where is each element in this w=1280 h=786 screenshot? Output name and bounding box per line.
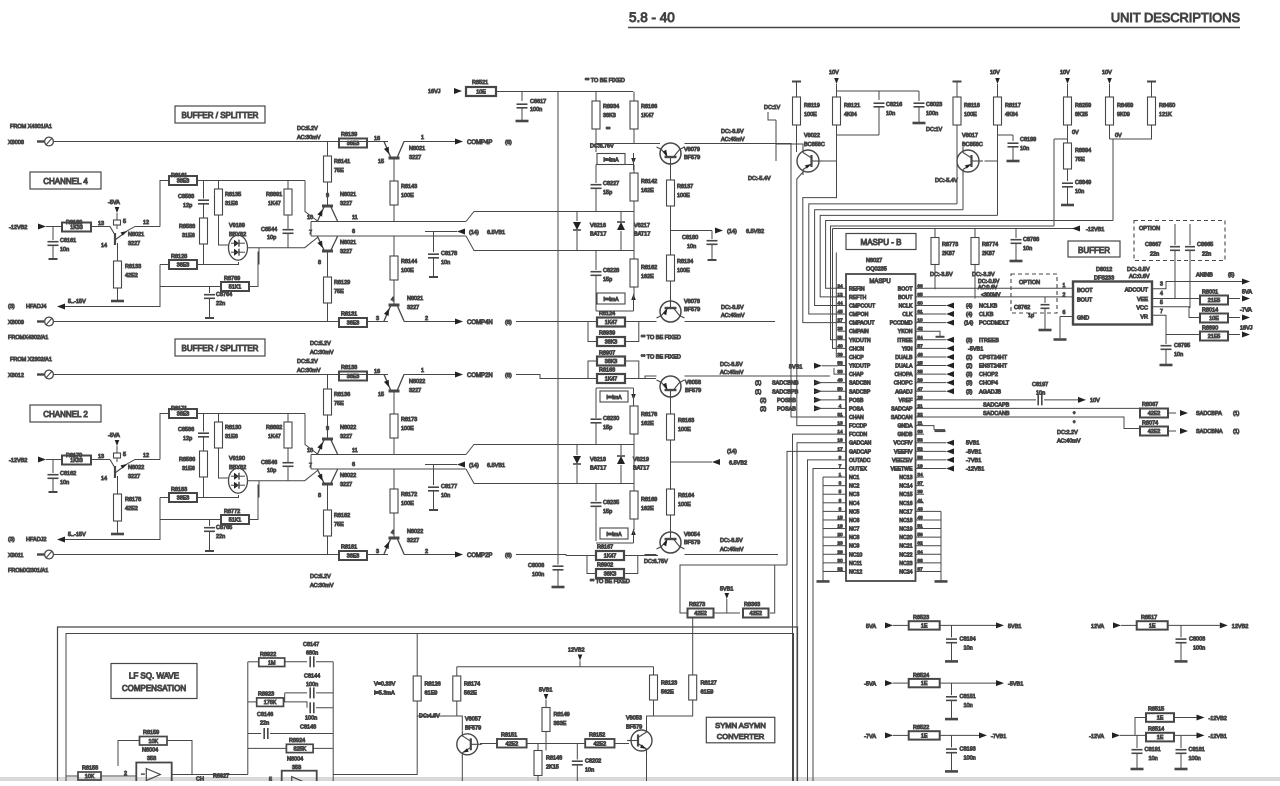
svg-text:R8158: R8158 xyxy=(82,766,98,772)
svg-text:10n: 10n xyxy=(60,247,69,253)
svg-text:GADCAP: GADCAP xyxy=(849,449,871,455)
svg-text:GADCAN: GADCAN xyxy=(849,441,871,447)
wire -12VB2 row xyxy=(46,459,62,461)
svg-text:N8022: N8022 xyxy=(340,425,356,431)
svg-text:8: 8 xyxy=(318,493,321,499)
svg-text:(14): (14) xyxy=(964,321,973,327)
net -12VB1 out xyxy=(1197,732,1205,738)
svg-text:DC:-8.5V: DC:-8.5V xyxy=(720,538,743,544)
svg-text:NC12: NC12 xyxy=(849,569,862,575)
svg-text:1: 1 xyxy=(421,135,424,141)
svg-text:85: 85 xyxy=(917,292,923,298)
wire core top rail xyxy=(160,181,169,227)
svg-text:V8218: V8218 xyxy=(590,457,606,463)
wire fan row6 from 0V xyxy=(831,226,1055,340)
svg-text:12: 12 xyxy=(143,220,149,226)
svg-text:10n: 10n xyxy=(1020,146,1029,152)
svg-text:BOOT: BOOT xyxy=(1077,288,1093,294)
svg-text:75E: 75E xyxy=(334,168,344,174)
wire R8907 R8168 parallel loop xyxy=(588,361,597,379)
wire opamp1 feedback xyxy=(118,741,140,767)
svg-text:R8131: R8131 xyxy=(341,312,357,318)
wire R8137 to node 6.5VB2 xyxy=(670,206,672,255)
svg-text:3227: 3227 xyxy=(407,305,419,311)
svg-text:NC7: NC7 xyxy=(849,527,859,533)
svg-text:SADCBNB: SADCBNB xyxy=(772,381,799,387)
svg-text:15: 15 xyxy=(837,515,843,521)
resistor R8922 xyxy=(248,661,259,663)
svg-text:C8180: C8180 xyxy=(682,235,698,241)
wire input bottom row xyxy=(53,321,339,323)
resistor R8142 xyxy=(630,173,638,201)
wire upper diode box right edge xyxy=(633,212,635,251)
svg-text:N8021: N8021 xyxy=(407,296,423,302)
svg-text:YKN: YKN xyxy=(902,346,913,352)
svg-text:1K33: 1K33 xyxy=(70,225,83,231)
wire 0V drop 4 xyxy=(1110,139,1114,221)
net 5VB1 out xyxy=(996,622,1004,628)
capacitor C8191 xyxy=(1136,735,1138,748)
svg-text:10n: 10n xyxy=(441,260,450,266)
svg-text:BF579: BF579 xyxy=(684,540,700,546)
svg-text:I=4mA: I=4mA xyxy=(603,297,619,303)
svg-text:13: 13 xyxy=(98,221,104,227)
svg-text:825K: 825K xyxy=(293,746,306,752)
svg-text:15p: 15p xyxy=(603,509,612,515)
wire input top row xyxy=(53,374,388,376)
transistor V8054 xyxy=(660,532,681,553)
wire V8079 emitter down xyxy=(670,167,672,180)
svg-text:NC14: NC14 xyxy=(899,484,912,490)
net ANINB xyxy=(1152,282,1242,289)
capacitor C8151 xyxy=(951,683,953,695)
svg-text:R8939: R8939 xyxy=(599,331,615,337)
svg-text:C8665: C8665 xyxy=(1197,242,1213,248)
svg-text:V8017: V8017 xyxy=(962,133,978,139)
svg-text:680n: 680n xyxy=(306,651,318,657)
resistor R8174 xyxy=(456,667,458,676)
wire fan row2 from V8017 emitter xyxy=(962,172,964,210)
svg-text:C8235: C8235 xyxy=(603,500,619,506)
svg-text:1K47: 1K47 xyxy=(605,377,618,383)
signal output COMP4P xyxy=(455,139,463,145)
svg-text:0V: 0V xyxy=(1072,130,1079,136)
svg-text:10n: 10n xyxy=(441,493,450,499)
svg-text:POSB: POSB xyxy=(849,398,864,404)
svg-text:BUFFER: BUFFER xyxy=(1078,246,1110,255)
net 5VA out xyxy=(1242,296,1250,302)
net 12VB2 out xyxy=(1220,622,1228,628)
svg-text:16VJ: 16VJ xyxy=(428,89,441,95)
svg-text:R8459: R8459 xyxy=(1117,103,1133,109)
svg-text:100n: 100n xyxy=(305,716,317,722)
svg-text:NC11: NC11 xyxy=(849,561,862,567)
svg-text:3227: 3227 xyxy=(128,474,140,480)
svg-text:22n: 22n xyxy=(216,534,225,540)
diode V8218 xyxy=(576,445,578,456)
svg-text:16: 16 xyxy=(374,136,380,142)
svg-text:CHOP4: CHOP4 xyxy=(979,381,998,387)
svg-text:5: 5 xyxy=(1160,300,1163,306)
svg-text:38E3: 38E3 xyxy=(347,374,360,380)
svg-text:N8027: N8027 xyxy=(866,258,882,264)
wire CHAP feed xyxy=(834,368,838,374)
svg-text:<300MV: <300MV xyxy=(981,293,1001,299)
svg-text:10n: 10n xyxy=(1075,189,1084,195)
svg-text:100E: 100E xyxy=(401,268,414,274)
resistor R8143 xyxy=(390,181,398,205)
wire base third down xyxy=(327,253,329,278)
svg-text:C8151: C8151 xyxy=(960,694,976,700)
svg-text:HFADJ2: HFADJ2 xyxy=(26,537,46,543)
svg-text:N8021: N8021 xyxy=(409,146,425,152)
svg-text:VREF: VREF xyxy=(899,398,913,404)
svg-text:1E: 1E xyxy=(921,733,928,739)
wire fan row0 from R8459 0V xyxy=(826,221,1113,289)
svg-text:CONVERTER: CONVERTER xyxy=(717,732,765,741)
capacitor C8177 xyxy=(433,465,435,486)
svg-text:100n: 100n xyxy=(926,111,938,117)
svg-text:GNDB: GNDB xyxy=(898,432,914,438)
wire R8134 to V8078 xyxy=(670,281,672,301)
svg-text:87: 87 xyxy=(917,566,923,572)
wire input top row xyxy=(53,141,388,143)
wire D8012 GND xyxy=(1060,316,1073,318)
svg-text:MASPU - B: MASPU - B xyxy=(861,238,902,247)
option dashed box with C8667 C8665 xyxy=(1134,221,1225,261)
svg-text:NCLK: NCLK xyxy=(899,303,913,309)
wire top rail to pin10 leg xyxy=(305,414,318,455)
capacitor C8227 xyxy=(595,165,597,184)
svg-text:CLKB: CLKB xyxy=(979,312,994,318)
svg-text:V=0.33V: V=0.33V xyxy=(374,682,396,688)
svg-text:38K3: 38K3 xyxy=(605,340,618,346)
svg-text:383E: 383E xyxy=(554,721,567,727)
svg-text:38E3: 38E3 xyxy=(347,141,360,147)
svg-text:38E3: 38E3 xyxy=(177,263,190,269)
svg-text:61: 61 xyxy=(917,309,923,315)
svg-text:162E: 162E xyxy=(641,188,654,194)
svg-text:52: 52 xyxy=(917,446,923,452)
wire output top xyxy=(404,141,455,143)
wire node 6.75 to V8079 xyxy=(596,143,660,145)
capacitor C8228 xyxy=(595,251,597,271)
svg-text:C8230: C8230 xyxy=(603,416,619,422)
svg-text:R8934: R8934 xyxy=(603,104,619,110)
net ITREEB xyxy=(946,337,954,343)
wire hfadj to 5k1 xyxy=(160,520,210,540)
svg-text:75E: 75E xyxy=(334,401,344,407)
resistor R8892 xyxy=(287,414,289,423)
svg-text:R8774: R8774 xyxy=(982,242,998,248)
svg-text:31E6: 31E6 xyxy=(182,466,195,472)
svg-text:(3): (3) xyxy=(8,537,15,543)
svg-text:C8227: C8227 xyxy=(603,181,619,187)
capacitor C8161 xyxy=(52,227,54,241)
svg-text:SADCBNA: SADCBNA xyxy=(1196,429,1223,435)
svg-text:12: 12 xyxy=(143,453,149,459)
svg-text:BOUT: BOUT xyxy=(898,295,913,301)
svg-text:1: 1 xyxy=(839,472,842,478)
svg-text:REFIN: REFIN xyxy=(849,286,865,292)
wire BOUT row xyxy=(924,296,1073,298)
svg-text:NC3: NC3 xyxy=(849,492,859,498)
svg-text:21E5: 21E5 xyxy=(1208,334,1221,340)
svg-text:DC:5.2V: DC:5.2V xyxy=(297,126,318,132)
wire lower diode bus bottom xyxy=(558,483,634,485)
svg-text:10: 10 xyxy=(917,318,923,324)
svg-text:14: 14 xyxy=(837,429,843,435)
svg-text:NC24: NC24 xyxy=(899,569,912,575)
svg-text:AC:0.6V: AC:0.6V xyxy=(978,285,998,291)
svg-text:R8259: R8259 xyxy=(1075,103,1091,109)
svg-text:R8273: R8273 xyxy=(689,602,705,608)
svg-text:CH: CH xyxy=(196,777,204,782)
svg-text:YKOUTN: YKOUTN xyxy=(849,338,871,344)
svg-text:POSAB: POSAB xyxy=(777,406,796,412)
capacitor C8235 xyxy=(595,484,597,502)
svg-text:NCLKB: NCLKB xyxy=(979,303,998,309)
svg-text:C8197: C8197 xyxy=(1032,382,1048,388)
svg-text:R8172: R8172 xyxy=(401,492,417,498)
capacitor C8181 xyxy=(1180,735,1182,748)
resistor R8123 xyxy=(653,667,655,675)
svg-text:15: 15 xyxy=(378,159,384,165)
svg-text:NC9: NC9 xyxy=(849,544,859,550)
svg-text:19: 19 xyxy=(917,463,923,469)
wire R8164 to V8054 xyxy=(670,515,672,532)
svg-text:VEETWE: VEETWE xyxy=(891,466,913,472)
net 6.5VB1 bus label xyxy=(425,464,457,466)
svg-text:51K1: 51K1 xyxy=(229,285,242,291)
svg-text:CHANNEL 2: CHANNEL 2 xyxy=(43,410,88,419)
wire core top rail xyxy=(160,414,169,460)
svg-text:C8617: C8617 xyxy=(530,99,546,105)
svg-text:25: 25 xyxy=(917,361,923,367)
svg-text:R8142: R8142 xyxy=(641,179,657,185)
svg-text:C8193: C8193 xyxy=(960,746,976,752)
svg-text:53: 53 xyxy=(917,438,923,444)
svg-text:R8149: R8149 xyxy=(554,712,570,718)
svg-text:5VB1: 5VB1 xyxy=(1008,624,1021,630)
svg-text:562E: 562E xyxy=(464,691,477,697)
svg-text:** TO BE FIXED: ** TO BE FIXED xyxy=(585,78,625,84)
svg-text:ITREEB: ITREEB xyxy=(979,338,999,344)
svg-text:R8164: R8164 xyxy=(678,493,694,499)
svg-text:42: 42 xyxy=(917,326,923,332)
svg-text:3227: 3227 xyxy=(409,155,421,161)
wire fan row7 from -12VB1 rail xyxy=(833,229,839,349)
svg-text:100E: 100E xyxy=(804,112,817,118)
svg-text:39: 39 xyxy=(837,352,843,358)
svg-text:AC:45mV: AC:45mV xyxy=(721,137,745,143)
svg-text:11: 11 xyxy=(352,215,358,221)
svg-text:162E: 162E xyxy=(641,274,654,280)
capacitor C8764 xyxy=(209,287,211,294)
diode V8219 xyxy=(620,445,622,456)
svg-text:C8006: C8006 xyxy=(528,563,544,569)
svg-text:R8163: R8163 xyxy=(678,418,694,424)
svg-text:CHOPA: CHOPA xyxy=(894,372,913,378)
svg-text:-5VB1: -5VB1 xyxy=(966,449,981,455)
svg-text:1E: 1E xyxy=(1157,735,1164,741)
svg-text:AC:40mV: AC:40mV xyxy=(1057,439,1081,445)
svg-text:26: 26 xyxy=(837,549,843,555)
wire to out -5VB1 xyxy=(940,682,996,684)
ic MASPU right pins xyxy=(916,287,925,289)
wire base third down xyxy=(327,486,329,511)
capacitor C8202 xyxy=(576,744,578,760)
svg-text:12VB2: 12VB2 xyxy=(1232,624,1249,630)
svg-text:BC858C: BC858C xyxy=(804,142,825,148)
svg-text:7: 7 xyxy=(839,463,842,469)
svg-text:NC21: NC21 xyxy=(899,544,912,550)
svg-text:R8169: R8169 xyxy=(641,497,657,503)
svg-text:NC1: NC1 xyxy=(849,475,859,481)
svg-text:45: 45 xyxy=(837,309,843,315)
resistor R8176 xyxy=(630,406,638,434)
svg-text:33: 33 xyxy=(837,369,843,375)
svg-text:562E: 562E xyxy=(661,690,674,696)
svg-text:V9189: V9189 xyxy=(229,223,245,229)
svg-text:10n: 10n xyxy=(1174,352,1183,358)
svg-text:C8795: C8795 xyxy=(1174,343,1190,349)
svg-text:1: 1 xyxy=(1063,283,1066,289)
svg-text:SADCBP: SADCBP xyxy=(849,389,871,395)
svg-text:C8023: C8023 xyxy=(926,102,942,108)
wire to out 5VB1 xyxy=(940,624,996,626)
resistor R8136 xyxy=(327,375,329,390)
svg-text:FCCDP: FCCDP xyxy=(849,424,867,430)
svg-text:1p: 1p xyxy=(1028,313,1034,319)
svg-text:42E2: 42E2 xyxy=(1148,429,1161,435)
wire V8079 right leg to fan xyxy=(685,144,839,418)
svg-text:5VB1: 5VB1 xyxy=(966,441,979,447)
svg-text:12p: 12p xyxy=(183,203,192,209)
svg-text:SADCAN: SADCAN xyxy=(891,415,913,421)
svg-text:C8762: C8762 xyxy=(1014,305,1030,311)
svg-text:4: 4 xyxy=(391,530,394,536)
svg-text:CHAN: CHAN xyxy=(849,415,864,421)
resistor R8162 xyxy=(630,259,638,287)
svg-text:(1): (1) xyxy=(1233,411,1240,417)
svg-text:10n: 10n xyxy=(886,111,895,117)
wire V8022 base node xyxy=(837,134,880,136)
svg-text:R8121: R8121 xyxy=(844,103,860,109)
wire NC1-NC12 common xyxy=(823,477,838,571)
svg-text:2K87: 2K87 xyxy=(942,251,955,257)
svg-text:R8143: R8143 xyxy=(401,184,417,190)
svg-text:NC22: NC22 xyxy=(899,552,912,558)
net SADCAPB xyxy=(924,407,1140,409)
svg-text:C8216: C8216 xyxy=(886,102,902,108)
svg-text:-12VB1: -12VB1 xyxy=(1209,734,1227,740)
svg-text:15p: 15p xyxy=(603,425,612,431)
wire V8079 left leg xyxy=(648,143,657,145)
svg-text:AC:45mV: AC:45mV xyxy=(720,370,744,376)
svg-text:(6): (6) xyxy=(505,140,512,146)
svg-text:4: 4 xyxy=(391,297,394,303)
svg-text:CPST24HT: CPST24HT xyxy=(979,355,1008,361)
wire output bottom xyxy=(404,554,455,556)
svg-text:9: 9 xyxy=(326,426,329,432)
capacitor C8162 xyxy=(52,460,54,474)
svg-text:N8022: N8022 xyxy=(128,465,144,471)
svg-text:8: 8 xyxy=(839,506,842,512)
svg-text:V8057: V8057 xyxy=(465,717,481,723)
block title BUFFER xyxy=(1068,241,1120,257)
svg-text:-12VB1: -12VB1 xyxy=(966,466,984,472)
svg-text:DC:5.2V: DC:5.2V xyxy=(310,341,331,347)
svg-text:R8159: R8159 xyxy=(143,730,159,736)
resistor R8259 xyxy=(1064,97,1072,125)
wire 42E2 row loop xyxy=(680,565,787,613)
svg-text:DC:-8.5V: DC:-8.5V xyxy=(720,362,743,368)
svg-text:DC:4.8V: DC:4.8V xyxy=(419,714,440,720)
svg-text:R8182: R8182 xyxy=(334,513,350,519)
svg-text:5: 5 xyxy=(839,489,842,495)
ground C8617 xyxy=(516,120,529,123)
svg-text:C8667: C8667 xyxy=(1145,242,1161,248)
svg-text:(14): (14) xyxy=(727,229,737,235)
svg-text:N8004: N8004 xyxy=(142,748,158,754)
svg-text:51K1: 51K1 xyxy=(229,518,242,524)
svg-text:13: 13 xyxy=(98,454,104,460)
capacitor C8006 xyxy=(557,556,559,565)
net CPST24HT xyxy=(946,354,954,360)
svg-text:10V: 10V xyxy=(829,70,839,76)
ic MASPU body xyxy=(846,274,916,581)
net CHOP4 xyxy=(946,380,954,386)
svg-text:N8004: N8004 xyxy=(287,757,303,763)
svg-text:5VA: 5VA xyxy=(866,624,876,630)
transistor V8078 xyxy=(660,301,681,322)
svg-text:22n: 22n xyxy=(216,301,225,307)
resistor R8774 xyxy=(971,238,979,265)
svg-text:CHOP2: CHOP2 xyxy=(979,372,998,378)
svg-text:10n: 10n xyxy=(964,645,973,651)
wire V8058 emitter down xyxy=(670,400,672,414)
svg-text:66: 66 xyxy=(917,558,923,564)
svg-text:6.5VB2: 6.5VB2 xyxy=(729,461,747,467)
net NCLKB xyxy=(946,302,954,308)
wire fan row1 from V8017 base xyxy=(997,161,999,215)
svg-text:AC:30mV: AC:30mV xyxy=(310,350,334,356)
svg-text:(3): (3) xyxy=(966,372,973,378)
wire GNDA ground xyxy=(924,426,934,430)
svg-text:V8054: V8054 xyxy=(684,532,700,538)
net VREF to 10V xyxy=(924,399,1036,401)
svg-text:X8008: X8008 xyxy=(8,140,24,146)
svg-text:38K3: 38K3 xyxy=(605,359,618,365)
net -5VB1 VEEFIV xyxy=(946,448,954,454)
svg-text:BAT17: BAT17 xyxy=(633,466,649,472)
svg-text:1E: 1E xyxy=(921,623,928,629)
svg-text:OPTION: OPTION xyxy=(1139,226,1160,232)
svg-text:R8923: R8923 xyxy=(258,692,274,698)
svg-text:6.5VB1: 6.5VB1 xyxy=(487,463,505,469)
svg-text:** TO BE FIXED: ** TO BE FIXED xyxy=(641,355,681,361)
resistor R8182 xyxy=(324,510,332,536)
svg-text:VEEFIV: VEEFIV xyxy=(894,449,913,455)
svg-text:15p: 15p xyxy=(603,190,612,196)
resistor R8450 xyxy=(1147,81,1156,83)
svg-text:162E: 162E xyxy=(641,421,654,427)
resistor R8459 xyxy=(1106,97,1114,125)
svg-text:R8129: R8129 xyxy=(334,280,350,286)
resistor R8164 xyxy=(667,489,675,515)
svg-text:** TO BE FIXED: ** TO BE FIXED xyxy=(641,335,681,341)
